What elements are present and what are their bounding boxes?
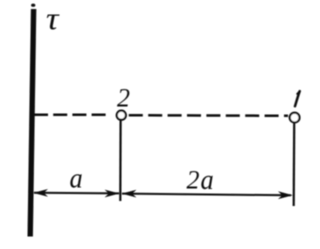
svg-text:a: a: [70, 164, 83, 195]
svg-text:2: 2: [117, 84, 130, 113]
svg-text:2: 2: [187, 166, 200, 195]
svg-text:a: a: [201, 165, 214, 196]
svg-text:τ: τ: [46, 1, 60, 36]
